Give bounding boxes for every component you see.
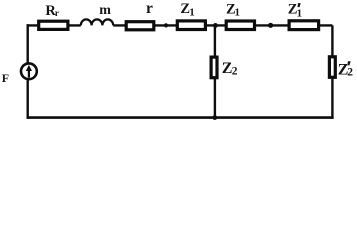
svg-text:1: 1 (297, 7, 303, 19)
svg-text:2: 2 (347, 66, 353, 78)
svg-text:r: r (55, 8, 59, 18)
svg-text:1: 1 (189, 7, 195, 19)
svg-text:F: F (2, 71, 9, 85)
svg-text:1: 1 (235, 7, 241, 19)
svg-text:2: 2 (232, 65, 238, 77)
svg-text:r: r (146, 0, 153, 17)
svg-text:m: m (99, 3, 111, 18)
